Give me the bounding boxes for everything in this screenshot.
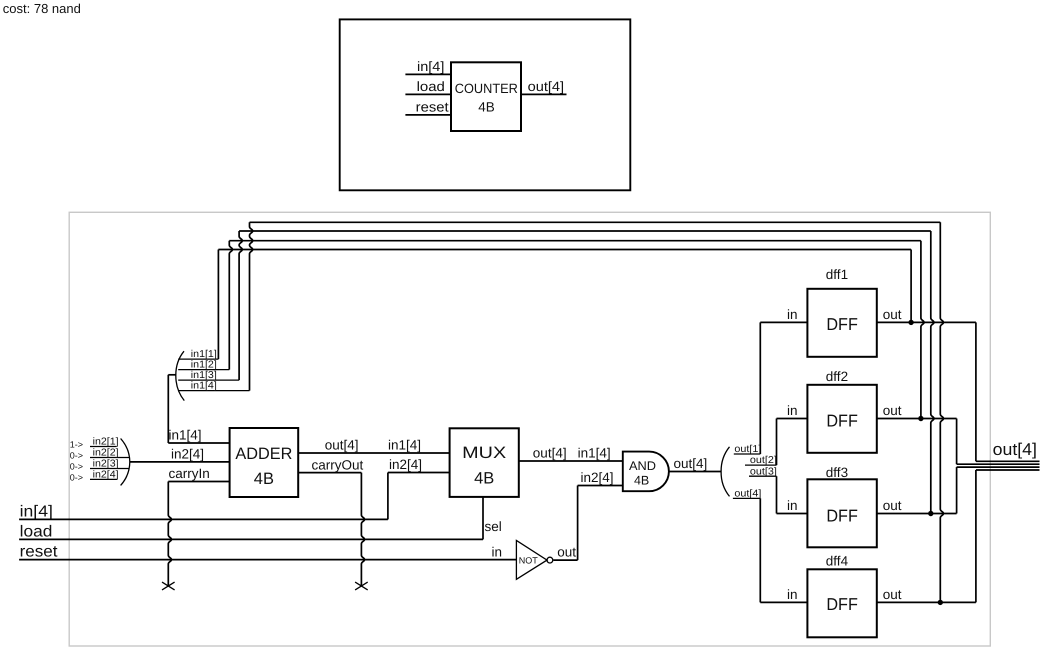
svg-text:load: load <box>20 523 53 540</box>
svg-text:in1[4]: in1[4] <box>388 437 421 452</box>
junction: dff4.out / fb1 <box>938 600 943 605</box>
enclosure: counter symbol box <box>340 19 631 190</box>
svg-text:load: load <box>417 79 445 94</box>
svg-text:in2[1]: in2[1] <box>93 437 119 448</box>
block dff3: DFF <box>807 479 876 547</box>
port in[4] <box>19 503 388 520</box>
wire: dff2.out to output bus <box>877 418 956 420</box>
wire: MUX.sel from load <box>482 497 484 540</box>
svg-text:out[4]: out[4] <box>734 489 761 500</box>
svg-text:in1[2]: in1[2] <box>191 360 217 371</box>
wire: AND.out to out splitter <box>669 471 722 473</box>
wire: out[2] to dff2.in <box>777 419 808 466</box>
svg-text:in2[4]: in2[4] <box>93 470 119 481</box>
svg-text:in2[4]: in2[4] <box>389 457 422 472</box>
terminator x: carryOut <box>355 582 368 590</box>
svg-text:sel: sel <box>485 519 502 534</box>
svg-text:in1[3]: in1[3] <box>191 370 217 381</box>
svg-text:cost: 78 nand: cost: 78 nand <box>3 1 81 16</box>
svg-text:out[4]: out[4] <box>528 79 565 94</box>
svg-text:DFF: DFF <box>826 410 858 430</box>
wire net fb3: dff2.out -> in1[2] (top feedback wire 3) <box>229 241 924 419</box>
splitter: out bus split (out[4] -> bits) <box>721 447 729 497</box>
wire: in1 bus to ADDER.in1 <box>168 375 229 443</box>
svg-text:out: out <box>557 545 576 560</box>
svg-text:reset: reset <box>416 100 449 115</box>
constant 0 -> in2[4] <box>70 470 119 483</box>
wire net fb4: dff1.out -> in1[1] (top feedback wire 4) <box>218 250 911 360</box>
svg-text:out[4]: out[4] <box>325 437 359 452</box>
svg-text:COUNTER: COUNTER <box>455 81 518 96</box>
pin reset of COUNTER <box>405 100 451 115</box>
junction: dff1.out / fb4 <box>908 320 913 325</box>
svg-text:out[4]: out[4] <box>533 446 567 461</box>
pin label in1[4] <box>178 381 249 392</box>
svg-text:dff4: dff4 <box>826 554 849 569</box>
svg-text:out: out <box>883 307 902 322</box>
svg-text:carryOut: carryOut <box>312 457 364 472</box>
wire: in[4] riser to MUX.in2 <box>388 473 450 520</box>
pin label out[1] <box>734 444 762 455</box>
svg-text:0->: 0-> <box>70 462 83 472</box>
wire: dff3.out up to out line 3 <box>957 467 1040 513</box>
constant 1 -> in2[1] <box>70 437 119 450</box>
wire: dff3.out to output bus <box>877 513 956 515</box>
svg-text:in1[4]: in1[4] <box>578 446 611 461</box>
svg-text:in[4]: in[4] <box>417 59 444 74</box>
svg-text:out[2]: out[2] <box>750 455 777 466</box>
wire net fb1: dff4.out -> in1[4] (top feedback wire 1) <box>250 222 944 602</box>
wire: carryOut unconnected drop <box>361 473 364 586</box>
svg-text:DFF: DFF <box>826 505 858 525</box>
pin out[4] of COUNTER <box>521 79 567 94</box>
block U2: MUX 4B <box>450 428 519 497</box>
svg-text:in: in <box>787 403 798 418</box>
svg-text:0->: 0-> <box>70 451 83 461</box>
wire: dff1.out to output bus <box>877 321 976 323</box>
svg-text:out: out <box>883 403 902 418</box>
svg-text:out[4]: out[4] <box>674 456 708 471</box>
wire: in2 bus to ADDER.in2 <box>130 461 230 463</box>
pin label out[3] <box>749 466 777 477</box>
svg-text:in2[4]: in2[4] <box>171 446 204 461</box>
svg-text:out[3]: out[3] <box>750 466 777 477</box>
block dff4: DFF <box>807 569 876 637</box>
svg-text:4B: 4B <box>254 470 274 488</box>
pin load of COUNTER <box>405 79 451 94</box>
svg-text:4B: 4B <box>634 473 649 487</box>
wire: dff1.out down to out line 1 <box>976 322 1040 461</box>
port reset <box>19 544 516 561</box>
svg-text:AND: AND <box>629 459 656 473</box>
svg-text:in2[3]: in2[3] <box>93 459 119 470</box>
svg-text:in2[4]: in2[4] <box>581 470 614 485</box>
svg-text:4B: 4B <box>478 99 495 114</box>
wire: ADDER.carryIn stub <box>168 481 229 483</box>
wire net fb2: dff3.out -> in1[3] (top feedback wire 2) <box>239 231 934 514</box>
svg-text:in: in <box>491 545 502 560</box>
junction: dff3.out / fb2 <box>928 511 933 516</box>
wire: out[4] to dff4.in <box>760 498 807 602</box>
junction: dff2.out / fb3 <box>918 416 923 421</box>
svg-text:in[4]: in[4] <box>20 503 53 520</box>
wire: ADDER.carryOut stub <box>298 472 361 474</box>
svg-text:in1[4]: in1[4] <box>169 428 202 443</box>
svg-text:in: in <box>787 498 798 513</box>
port load <box>19 523 483 540</box>
svg-text:4B: 4B <box>474 470 494 488</box>
wire: ADDER.out to MUX.in1 <box>298 452 449 454</box>
svg-text:in: in <box>787 587 798 602</box>
svg-text:DFF: DFF <box>826 594 858 614</box>
wire: dff4.out up to out line 4 <box>976 470 1040 602</box>
pin label in1[3] <box>178 370 239 381</box>
svg-text:MUX: MUX <box>462 444 506 462</box>
svg-text:in2[2]: in2[2] <box>93 448 119 459</box>
pin in[4] of COUNTER <box>405 59 451 74</box>
svg-text:out: out <box>883 498 902 513</box>
svg-text:NOT: NOT <box>519 555 539 565</box>
svg-text:1->: 1-> <box>70 440 83 450</box>
wire: NOT.out to AND.in2 <box>553 486 622 561</box>
pin label in1[1] <box>178 349 218 360</box>
svg-text:in: in <box>787 307 798 322</box>
svg-text:out[4]: out[4] <box>993 440 1037 459</box>
wire: out[3] to dff3.in <box>777 476 808 513</box>
block U1: ADDER 4B <box>230 428 299 497</box>
svg-text:out[1]: out[1] <box>734 444 761 455</box>
splitter: in2 bus join (constants -> in2[4]) <box>121 439 130 486</box>
constant 0 -> in2[3] <box>70 459 130 472</box>
constant 0 -> in2[2] <box>70 448 129 461</box>
svg-text:ADDER: ADDER <box>235 445 292 463</box>
svg-text:0->: 0-> <box>70 473 83 483</box>
svg-text:in1[1]: in1[1] <box>191 349 217 360</box>
wire: out[1] to dff1.in <box>760 322 807 454</box>
wire: dff2.out down to out line 2 <box>957 419 1040 465</box>
svg-text:reset: reset <box>20 544 58 561</box>
block U0: COUNTER 4B symbol <box>451 62 521 131</box>
wire: dff4.out to output bus <box>877 601 976 603</box>
svg-text:out: out <box>883 587 902 602</box>
wire: carryIn unconnected drop <box>168 482 171 587</box>
splitter: in1 bus join (4 bits -> in1[4]) <box>176 351 185 400</box>
gate U3: NOT <box>516 541 552 580</box>
pin label out[2] <box>745 455 777 466</box>
svg-text:in1[4]: in1[4] <box>191 381 217 392</box>
svg-text:dff1: dff1 <box>826 267 848 282</box>
svg-text:dff2: dff2 <box>826 369 848 384</box>
svg-text:carryIn: carryIn <box>169 466 210 481</box>
pin label out[4] <box>733 489 762 500</box>
gate U4: AND 4B <box>623 452 669 492</box>
svg-text:DFF: DFF <box>826 314 858 334</box>
svg-text:dff3: dff3 <box>826 465 848 480</box>
enclosure: counter implementation box <box>69 212 990 646</box>
block dff2: DFF <box>807 385 876 453</box>
wire: MUX.out to AND.in1 <box>519 460 623 462</box>
terminator x: carryIn <box>162 582 175 590</box>
block dff1: DFF <box>807 289 876 357</box>
pin label in1[2] <box>178 360 229 371</box>
